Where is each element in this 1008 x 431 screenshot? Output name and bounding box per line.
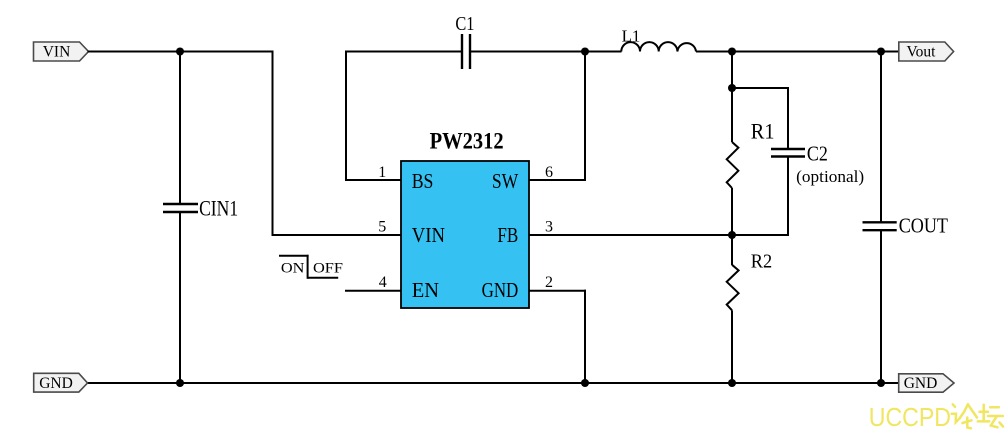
node ground dot COUT [877, 379, 885, 387]
svg-text:PW2312: PW2312 [430, 128, 504, 153]
port flag GND left [34, 373, 88, 392]
wire COUT top lead [880, 52, 882, 223]
svg-text:5: 5 [378, 219, 386, 236]
svg-text:4: 4 [379, 274, 387, 291]
node junction dot on VIN rail [176, 48, 184, 56]
svg-text:R2: R2 [751, 251, 772, 273]
node Vout junction dot [877, 48, 885, 56]
svg-text:OFF: OFF [313, 260, 343, 276]
wire SW node to L1 [585, 51, 622, 53]
wire bottom ground rail [87, 382, 899, 384]
capacitor COUT [863, 222, 897, 230]
svg-text:UCCPD: UCCPD [869, 402, 951, 431]
port flag Vout [899, 42, 954, 61]
wire C1 to SW node [470, 51, 586, 53]
svg-text:C1: C1 [455, 13, 474, 35]
node ground dot CIN1 [176, 379, 184, 387]
wire VIN branch down to pin 5 [272, 51, 402, 237]
svg-text:FB: FB [497, 223, 518, 247]
wire L1 to Vout [696, 51, 899, 53]
wire FB pin 3 to divider [529, 234, 789, 236]
node output junction dot [728, 48, 736, 56]
svg-text:VIN: VIN [43, 44, 71, 61]
wire COUT bottom lead [880, 230, 882, 384]
wire EN pin 4 [345, 290, 401, 292]
svg-text:(optional): (optional) [796, 167, 864, 186]
ON OFF switch symbol [279, 255, 343, 279]
svg-text:SW: SW [492, 169, 519, 193]
wire C2 bottom lead [787, 157, 789, 237]
wire R2 top lead [731, 235, 733, 265]
watermark UCCPD forum [869, 402, 1003, 431]
svg-text:COUT: COUT [899, 214, 948, 238]
svg-text:6: 6 [545, 164, 553, 181]
svg-text:2: 2 [545, 274, 553, 291]
node FB junction dot [728, 231, 736, 239]
wire output node down to divider [731, 52, 733, 90]
svg-text:GND: GND [39, 375, 73, 392]
node SW junction dot [581, 48, 589, 56]
wire VIN rail top [88, 51, 274, 53]
wire CIN1 bottom lead [179, 212, 181, 384]
inductor L1 [621, 42, 696, 51]
wire R1 top lead [731, 88, 733, 142]
node ground dot R2 [728, 379, 736, 387]
svg-text:GND: GND [904, 375, 938, 392]
svg-text:C2: C2 [807, 141, 828, 165]
wire GND pin 2 drop [529, 290, 586, 384]
svg-text:3: 3 [545, 219, 553, 236]
svg-text:VIN: VIN [412, 223, 445, 247]
wire CIN1 top lead [179, 52, 181, 205]
svg-text:1: 1 [378, 164, 386, 181]
wire BS loop pin 1 to C1 [345, 51, 462, 182]
wire R1 bottom lead [731, 188, 733, 236]
IC U1 PW2312 body [401, 161, 529, 308]
capacitor C2 [771, 149, 805, 157]
node divider top junction dot [728, 84, 736, 92]
wire R2 bottom lead [731, 310, 733, 384]
port flag GND right [899, 374, 954, 392]
svg-text:GND: GND [482, 278, 519, 302]
capacitor C1 [462, 34, 470, 69]
capacitor CIN1 [163, 204, 198, 212]
node ground dot IC [581, 379, 589, 387]
svg-text:Vout: Vout [906, 44, 936, 61]
svg-text:ON: ON [281, 260, 305, 276]
resistor R1 [727, 142, 739, 188]
svg-text:L1: L1 [622, 26, 641, 45]
svg-text:R1: R1 [751, 119, 775, 144]
svg-text:BS: BS [412, 169, 434, 193]
wire C2 branch top [731, 87, 789, 149]
port flag VIN [34, 42, 89, 61]
svg-text:CIN1: CIN1 [199, 196, 238, 221]
svg-text:EN: EN [412, 278, 439, 302]
wire SW pin 6 riser [529, 51, 586, 182]
resistor R2 [727, 265, 739, 311]
